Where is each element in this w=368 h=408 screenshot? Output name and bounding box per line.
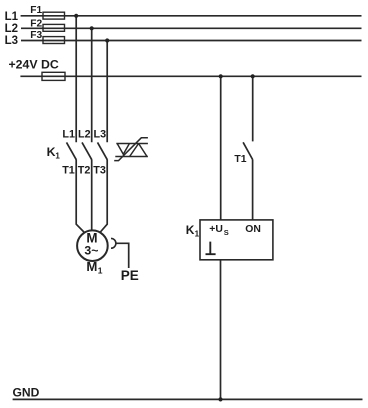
svg-text:L2: L2 <box>78 128 91 140</box>
svg-text:3~: 3~ <box>84 244 98 258</box>
svg-text:T3: T3 <box>93 165 106 177</box>
svg-text:T2: T2 <box>78 165 91 177</box>
svg-text:F2: F2 <box>30 18 42 29</box>
svg-text:K: K <box>47 145 56 159</box>
svg-text:L1: L1 <box>5 11 19 23</box>
svg-text:L3: L3 <box>5 35 18 47</box>
svg-text:1: 1 <box>55 152 60 161</box>
svg-text:1: 1 <box>98 265 103 275</box>
svg-text:M: M <box>86 259 97 274</box>
svg-text:L3: L3 <box>93 128 106 140</box>
svg-text:PE: PE <box>121 268 139 283</box>
svg-text:1: 1 <box>195 230 200 239</box>
svg-text:GND: GND <box>13 386 40 400</box>
svg-text:L2: L2 <box>5 23 18 35</box>
svg-text:F1: F1 <box>30 5 42 16</box>
svg-text:T1: T1 <box>234 154 246 165</box>
svg-text:+U: +U <box>209 224 223 235</box>
svg-text:ON: ON <box>245 224 261 235</box>
svg-text:T1: T1 <box>62 165 75 177</box>
svg-text:K: K <box>186 223 195 237</box>
svg-text:S: S <box>224 228 229 237</box>
svg-text:F3: F3 <box>30 30 42 41</box>
svg-text:+24V DC: +24V DC <box>9 58 59 72</box>
svg-text:L1: L1 <box>62 128 75 140</box>
